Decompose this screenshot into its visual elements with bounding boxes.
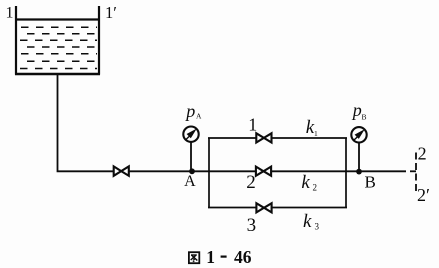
wire: main line end dash: [410, 170, 416, 172]
section 2-2' marker: [415, 153, 417, 193]
svg-text:2′: 2′: [417, 185, 430, 205]
branch 3 wire: [208, 207, 347, 209]
svg-text:k: k: [303, 211, 312, 232]
node B: [356, 169, 362, 175]
svg-text:k: k: [301, 172, 310, 193]
svg-text:1′: 1′: [105, 3, 117, 22]
network left vertical: [208, 138, 210, 208]
tank water surface: [15, 18, 100, 20]
svg-text:B: B: [365, 173, 376, 192]
network right vertical: [345, 138, 347, 208]
svg-text:B: B: [362, 112, 367, 121]
svg-text:p: p: [184, 101, 195, 121]
svg-text:2: 2: [313, 183, 318, 193]
svg-text:1: 1: [248, 115, 257, 135]
valve main: [114, 166, 129, 175]
node A: [189, 168, 195, 174]
svg-text:1: 1: [6, 5, 14, 22]
svg-text:3: 3: [247, 215, 257, 236]
gauge pB: [351, 127, 366, 142]
svg-text:p: p: [351, 100, 362, 120]
valve 3: [256, 203, 271, 212]
svg-text:3: 3: [315, 222, 320, 232]
valve 2: [256, 167, 271, 176]
svg-text:1: 1: [206, 247, 215, 267]
tank bottom: [15, 73, 100, 76]
gauge pA stem: [190, 142, 192, 171]
water (dashed fill): [20, 27, 97, 68]
svg-text:A: A: [184, 173, 196, 190]
gauge pB stem: [358, 142, 360, 170]
tank left wall: [15, 6, 17, 75]
caption character tu: [189, 252, 199, 263]
svg-text:A: A: [196, 112, 202, 121]
valve 1: [256, 133, 271, 142]
svg-text:2: 2: [418, 143, 427, 163]
svg-text:1: 1: [314, 129, 318, 138]
tank right wall: [98, 6, 100, 75]
gauge pA: [183, 127, 198, 142]
svg-text:2: 2: [246, 172, 256, 193]
svg-text:46: 46: [234, 247, 252, 267]
wire: outlet pipe and main line: [58, 75, 407, 171]
branch 1 wire: [208, 137, 347, 139]
